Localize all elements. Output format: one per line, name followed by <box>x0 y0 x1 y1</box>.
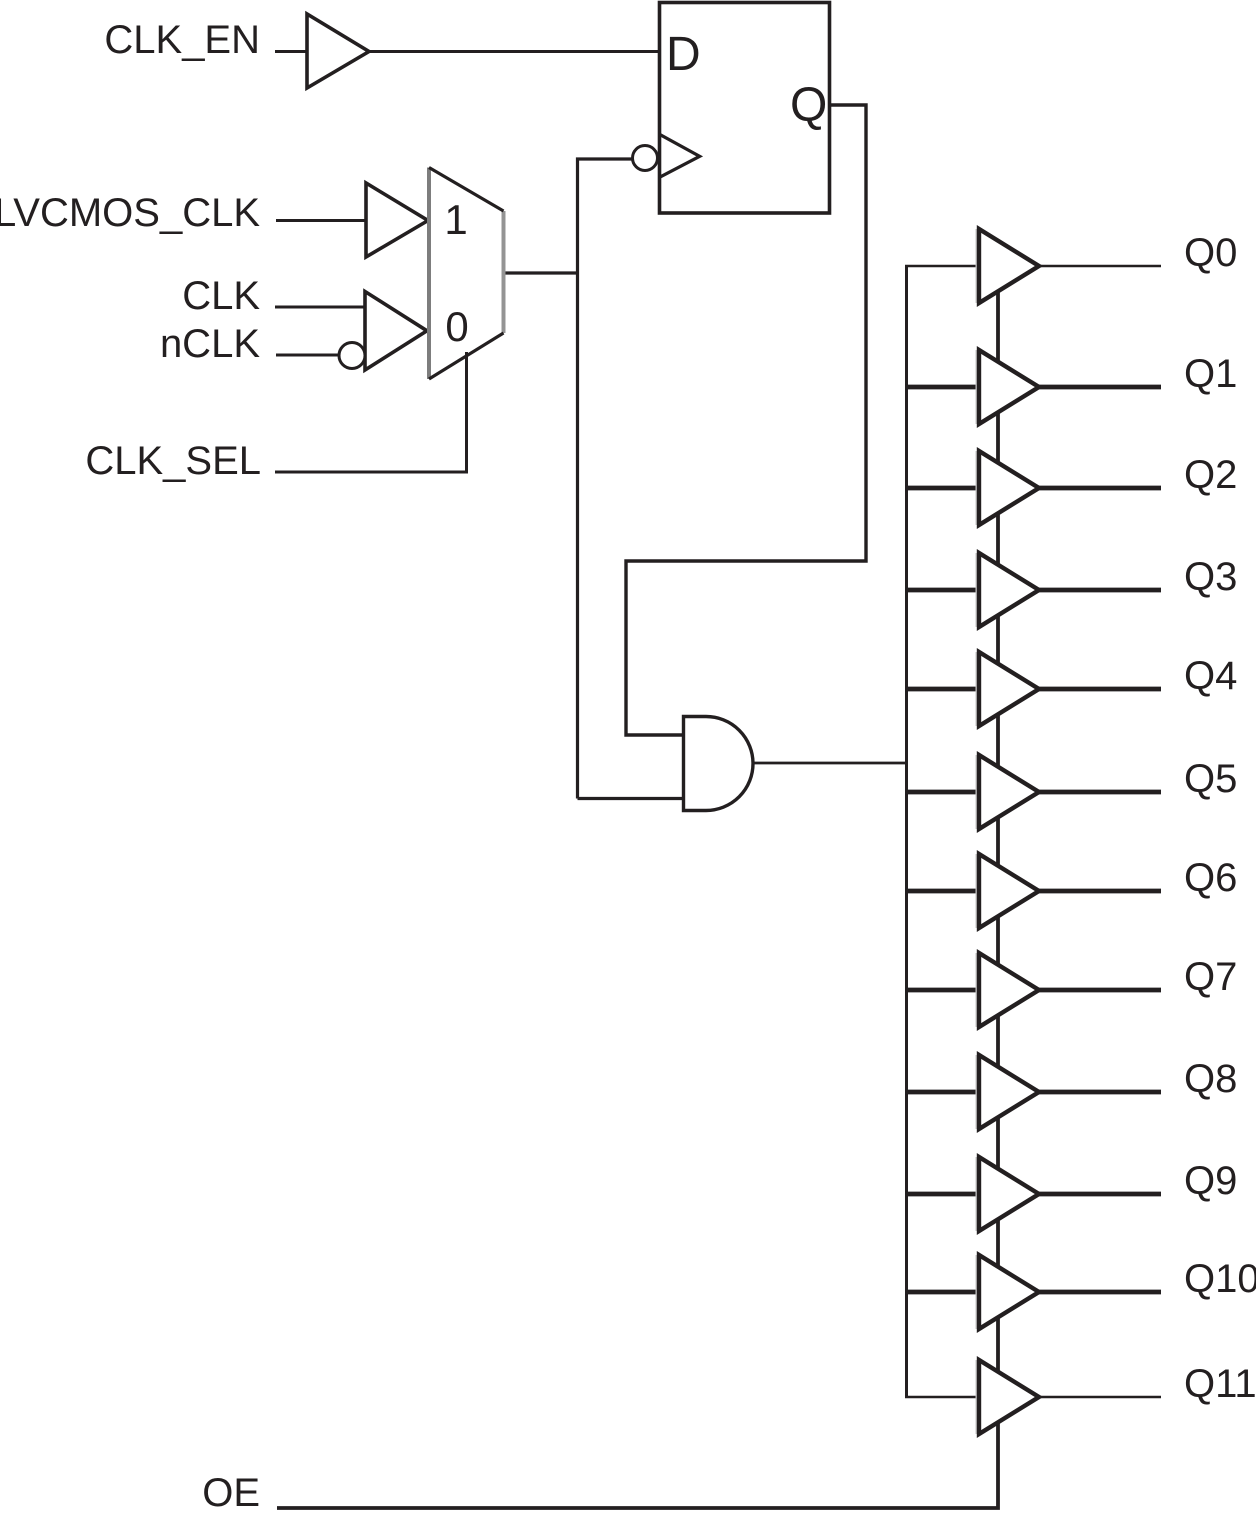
wire Q10 output <box>1037 1290 1161 1295</box>
svg-text:0: 0 <box>445 303 468 350</box>
wire Q8 input <box>905 1090 979 1095</box>
wire CLK input <box>275 306 366 309</box>
wire Q4 input <box>905 687 979 692</box>
svg-text:CLK_EN: CLK_EN <box>104 18 260 62</box>
svg-text:Q11: Q11 <box>1184 1362 1256 1406</box>
mux M1 <box>429 168 504 380</box>
wire Q11 input <box>905 1396 979 1399</box>
output buffer Q9 <box>977 1157 1040 1231</box>
svg-text:Q10: Q10 <box>1184 1257 1256 1301</box>
wire output bus <box>905 266 908 1397</box>
svg-text:Q2: Q2 <box>1184 453 1237 497</box>
wire CLK_SEL to mux select <box>275 352 467 472</box>
buffer CLK/nCLK differential <box>365 292 427 371</box>
clock edge symbol <box>660 134 700 177</box>
and-gate G1 <box>684 717 754 811</box>
wire LVCMOS_CLK input <box>276 219 367 222</box>
wire Q8 output <box>1037 1090 1161 1095</box>
svg-text:Q: Q <box>790 79 827 132</box>
wire Q0 input <box>905 265 979 268</box>
svg-text:CLK: CLK <box>182 274 260 318</box>
output buffer Q6 <box>977 854 1040 928</box>
svg-text:Q3: Q3 <box>1184 555 1237 599</box>
wire CLK_EN input <box>275 50 308 53</box>
wire Q7 output <box>1037 988 1161 993</box>
output buffer Q3 <box>977 553 1040 627</box>
buffer CLK_EN <box>307 14 369 88</box>
wire Q5 output <box>1037 790 1161 795</box>
wire Q11 output <box>1037 1396 1161 1399</box>
output buffer Q7 <box>977 953 1040 1027</box>
wire mux output <box>505 271 579 274</box>
wire Q feedback <box>626 105 866 735</box>
wire AND output to bus <box>753 762 908 765</box>
wire Q6 input <box>905 889 979 894</box>
wire Q0 output <box>1037 265 1161 268</box>
inversion bubble nCLK <box>339 343 365 369</box>
output buffer Q10 <box>977 1255 1040 1329</box>
wire mux output to FF clock <box>578 159 634 799</box>
wire CLK_EN to D <box>368 50 660 53</box>
svg-text:LVCMOS_CLK: LVCMOS_CLK <box>0 191 260 235</box>
wire Q2 output <box>1037 486 1161 491</box>
D flip-flop U1 <box>660 3 830 214</box>
svg-text:nCLK: nCLK <box>160 322 260 366</box>
wire Q9 output <box>1037 1192 1161 1197</box>
svg-text:Q1: Q1 <box>1184 352 1237 396</box>
svg-text:Q0: Q0 <box>1184 231 1237 275</box>
inversion bubble FF clock <box>633 146 658 171</box>
wire Q9 input <box>905 1192 979 1197</box>
svg-text:Q8: Q8 <box>1184 1057 1237 1101</box>
wire Q3 input <box>905 588 979 593</box>
output buffer Q5 <box>977 755 1040 829</box>
wire Q2 input <box>905 486 979 491</box>
wire OE <box>277 267 998 1508</box>
wire nCLK input <box>276 354 339 357</box>
output buffer Q0 <box>977 229 1040 303</box>
wire Q1 input <box>905 385 979 390</box>
wire AND lower input <box>578 797 685 800</box>
svg-text:Q5: Q5 <box>1184 757 1237 801</box>
svg-text:Q7: Q7 <box>1184 955 1237 999</box>
svg-text:OE: OE <box>202 1471 260 1515</box>
output buffer Q8 <box>977 1055 1040 1129</box>
output buffer Q1 <box>977 350 1040 424</box>
svg-text:CLK_SEL: CLK_SEL <box>85 439 261 483</box>
wire Q4 output <box>1037 687 1161 692</box>
wire Q6 output <box>1037 889 1161 894</box>
output buffer Q11 <box>977 1360 1040 1434</box>
svg-text:D: D <box>666 28 701 81</box>
wire Q1 output <box>1037 385 1161 390</box>
svg-text:Q9: Q9 <box>1184 1159 1237 1203</box>
svg-text:1: 1 <box>444 196 467 243</box>
output buffer Q4 <box>977 652 1040 726</box>
wire Q3 output <box>1037 588 1161 593</box>
svg-text:Q4: Q4 <box>1184 654 1237 698</box>
buffer LVCMOS_CLK <box>366 183 428 257</box>
wire Q7 input <box>905 988 979 993</box>
output buffer Q2 <box>977 451 1040 525</box>
wire Q10 input <box>905 1290 979 1295</box>
wire Q5 input <box>905 790 979 795</box>
svg-text:Q6: Q6 <box>1184 856 1237 900</box>
